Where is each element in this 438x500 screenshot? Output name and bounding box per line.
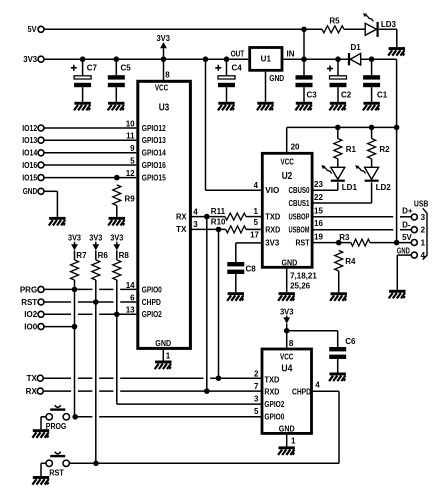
label R1 xyxy=(346,145,357,154)
wire U2 GND lead xyxy=(286,269,288,293)
svg-text:R10: R10 xyxy=(211,217,226,226)
ground C8 xyxy=(227,292,244,301)
svg-text:U3: U3 xyxy=(159,103,170,114)
junction 5V VCC xyxy=(394,125,400,131)
svg-text:GND: GND xyxy=(279,425,295,434)
label USBOP xyxy=(289,213,310,222)
capacitor C3 xyxy=(296,75,313,87)
module U4 xyxy=(262,349,312,433)
wire R5 to LD3 xyxy=(344,28,365,30)
USB bracket xyxy=(423,208,427,259)
svg-text:CHPD: CHPD xyxy=(292,387,311,396)
svg-text:3: 3 xyxy=(421,213,426,222)
USB pin 1 circle xyxy=(411,240,417,246)
wire C6 branch xyxy=(287,331,338,347)
svg-text:11: 11 xyxy=(126,132,135,141)
svg-text:IO16: IO16 xyxy=(22,161,37,170)
svg-text:IO15: IO15 xyxy=(22,174,37,183)
wire U3 GND lead xyxy=(162,350,164,361)
svg-text:RST: RST xyxy=(21,298,37,307)
svg-text:10: 10 xyxy=(126,119,135,128)
wire U2 VCC pin 20 xyxy=(287,127,397,152)
label U4 RXD xyxy=(264,387,279,396)
wire 5V vertical xyxy=(396,59,398,242)
label R5 xyxy=(329,16,340,25)
3V3 power arrow U4 xyxy=(283,316,290,324)
3V3 power arrow R6 xyxy=(92,242,99,251)
capacitor C1 xyxy=(363,75,380,87)
U4 pin number 3 xyxy=(254,394,259,403)
wire IO15 to U3 xyxy=(44,177,136,179)
wire PRG to GPIO0 xyxy=(44,287,136,293)
wire U2 RST to R3 xyxy=(314,242,351,244)
terminal label RX xyxy=(26,387,38,396)
wire R8 top lead xyxy=(116,250,118,260)
svg-text:20: 20 xyxy=(291,142,300,151)
wire U2 VIO to 3V3 rail xyxy=(206,59,261,190)
junction C4 xyxy=(224,56,230,62)
svg-text:GPIO2: GPIO2 xyxy=(142,310,162,319)
terminal RX xyxy=(37,388,43,394)
terminal IO13 xyxy=(38,137,44,143)
label GPIO16 xyxy=(142,161,166,170)
junction 5V rail to U1 IN xyxy=(301,27,307,33)
label U3 VCC xyxy=(155,83,168,92)
wire R7 column down to PROG xyxy=(74,289,76,416)
label R11 xyxy=(211,207,226,216)
terminal label IO16 xyxy=(22,161,37,170)
svg-text:8: 8 xyxy=(289,339,294,348)
terminal label IO14 xyxy=(22,149,37,158)
terminal label IO15 xyxy=(22,174,37,183)
terminal label IO2 xyxy=(24,310,37,319)
terminal IO0 xyxy=(38,324,44,330)
label U3 xyxy=(159,103,170,114)
svg-text:1: 1 xyxy=(291,436,296,445)
wire 5V to IN vertical xyxy=(303,29,305,75)
svg-text:R3: R3 xyxy=(339,233,350,242)
ground LD3 xyxy=(388,47,405,56)
svg-text:VCC: VCC xyxy=(155,83,168,92)
svg-text:VCC: VCC xyxy=(281,157,294,166)
ground C4 xyxy=(218,102,235,111)
junction C1 xyxy=(369,56,375,62)
wire CBUS0 to LD1 xyxy=(314,182,338,190)
svg-text:5: 5 xyxy=(130,156,135,165)
svg-text:3V3: 3V3 xyxy=(265,239,280,248)
wire R7 top lead xyxy=(74,250,76,260)
terminal TX xyxy=(37,375,43,381)
label U4 CHPD xyxy=(292,387,311,396)
svg-text:RST: RST xyxy=(296,239,310,248)
capacitor C5 xyxy=(108,75,125,87)
terminal label IO13 xyxy=(22,136,37,145)
wire R6 top lead xyxy=(95,250,97,260)
wire C7 top lead xyxy=(82,59,84,75)
svg-text:3: 3 xyxy=(254,394,259,403)
terminal IO15 xyxy=(38,175,44,181)
U2 pin number 22 xyxy=(314,193,323,202)
svg-text:RXD: RXD xyxy=(264,387,279,396)
svg-text:RST: RST xyxy=(49,469,64,478)
label GPIO13 xyxy=(142,136,166,145)
wire U1 IN xyxy=(283,58,348,60)
svg-text:1: 1 xyxy=(254,207,259,216)
label C7 xyxy=(87,64,98,73)
svg-text:GND: GND xyxy=(282,258,298,267)
svg-text:CBUS0: CBUS0 xyxy=(289,186,310,195)
pin number 6 xyxy=(130,293,135,302)
ground R4 xyxy=(330,292,347,301)
svg-text:7,18,21: 7,18,21 xyxy=(290,271,317,280)
junction U2 VIO branch xyxy=(203,56,209,62)
U4 pin number 7 xyxy=(254,382,259,391)
svg-text:D+: D+ xyxy=(402,206,413,215)
label VIO xyxy=(265,186,279,195)
svg-text:GPIO12: GPIO12 xyxy=(142,124,166,133)
pin number 4 xyxy=(193,207,198,216)
svg-text:3V3: 3V3 xyxy=(68,234,82,243)
resistor R3 xyxy=(351,239,370,246)
pin number 12 xyxy=(126,169,135,178)
label RST xyxy=(49,469,64,478)
terminal PRG xyxy=(38,286,44,292)
label GPIO14 xyxy=(142,149,166,158)
wire U3 TX to R10 xyxy=(190,227,225,233)
svg-text:GND: GND xyxy=(23,187,38,196)
wire RST button to CHPD run xyxy=(69,462,339,464)
ground U2 xyxy=(278,292,295,301)
label U2 3V3 xyxy=(265,239,280,248)
ground U4 xyxy=(278,446,295,455)
label U4 xyxy=(281,363,292,374)
svg-text:C1: C1 xyxy=(377,90,388,99)
resistor R4 xyxy=(335,250,343,271)
svg-text:IO13: IO13 xyxy=(22,136,37,145)
svg-text:14: 14 xyxy=(126,281,135,290)
ground C5 xyxy=(108,102,125,111)
ground C7 xyxy=(74,102,91,111)
wire LD3 ground lead xyxy=(396,29,398,47)
pin number 3 xyxy=(193,220,198,229)
U4 pin number 1 xyxy=(291,436,296,445)
svg-text:R6: R6 xyxy=(98,251,109,260)
junction R3 5V xyxy=(394,240,400,246)
label C8 xyxy=(246,265,257,274)
diode D1 xyxy=(349,53,361,65)
label IN xyxy=(287,49,295,58)
svg-text:RXD: RXD xyxy=(265,225,280,234)
label C2 xyxy=(341,90,352,99)
svg-text:6: 6 xyxy=(130,293,135,302)
pin 8 label xyxy=(165,71,170,80)
wire C6 bottom lead xyxy=(337,359,339,373)
capacitor C2 xyxy=(327,66,347,88)
svg-text:R2: R2 xyxy=(379,145,390,154)
svg-text:5V: 5V xyxy=(28,25,38,34)
svg-text:GPIO16: GPIO16 xyxy=(142,161,166,170)
label CBUS0 xyxy=(289,186,310,195)
svg-text:13: 13 xyxy=(126,306,135,315)
junction C3 / 5V xyxy=(301,56,307,62)
U2 pins 7,18,21 xyxy=(290,271,317,280)
capacitor C8 xyxy=(227,262,244,274)
label C6 xyxy=(345,337,356,346)
U2 pin number 4 xyxy=(254,181,259,190)
USB pin number 2 xyxy=(421,226,426,235)
wire R2 to LD2 xyxy=(371,159,373,168)
label LD3 xyxy=(381,20,397,29)
wire U3 RX to R11 xyxy=(190,214,225,220)
svg-text:R4: R4 xyxy=(345,257,356,266)
svg-text:C5: C5 xyxy=(121,64,132,73)
label U2 RST xyxy=(296,239,310,248)
svg-text:IO12: IO12 xyxy=(22,124,37,133)
label U4 TXD xyxy=(264,375,279,384)
label R6 xyxy=(98,251,109,260)
USB pin 3 circle xyxy=(411,214,417,220)
svg-text:USBOM: USBOM xyxy=(289,225,310,234)
junction R1 VCC xyxy=(335,125,341,131)
label U3 GND xyxy=(155,339,171,348)
svg-text:19: 19 xyxy=(314,233,323,242)
wire U1 GND lead xyxy=(265,72,267,102)
junction C6 branch xyxy=(284,328,290,334)
junction R9 on IO15 xyxy=(114,175,120,181)
label USBOM xyxy=(289,225,310,234)
label GPIO0 xyxy=(142,285,162,294)
junction C5 xyxy=(114,56,120,62)
terminal label PRG xyxy=(20,285,37,294)
3V3 power arrow U3 xyxy=(160,42,167,48)
label U2 xyxy=(282,171,293,182)
USB pin number 4 xyxy=(421,251,426,260)
wire U4 VCC pin 8 xyxy=(286,324,288,348)
resistor R1 xyxy=(334,139,342,159)
U2 pin number 16 xyxy=(314,219,323,228)
wire R8 bottom lead xyxy=(116,280,118,314)
label U3 RX xyxy=(176,212,187,221)
3V3 terminal label xyxy=(23,55,38,64)
USB pin number 3 xyxy=(421,213,426,222)
svg-text:C4: C4 xyxy=(232,64,243,73)
wire 3V3 rail xyxy=(44,58,248,60)
U2 pin number 20 xyxy=(291,142,300,151)
svg-text:TX: TX xyxy=(27,374,38,383)
label R2 xyxy=(379,145,390,154)
label U2 RXD xyxy=(265,225,280,234)
wire C1 top lead xyxy=(371,59,373,75)
svg-text:3V3: 3V3 xyxy=(89,234,103,243)
label C3 xyxy=(307,90,318,99)
resistor R6 xyxy=(92,260,100,280)
svg-text:5: 5 xyxy=(254,218,259,227)
svg-text:GPIO2: GPIO2 xyxy=(264,400,284,409)
capacitor C6 xyxy=(329,347,346,359)
svg-text:LD1: LD1 xyxy=(342,183,358,192)
svg-text:VCC: VCC xyxy=(280,352,293,361)
wire C5 bottom lead xyxy=(115,87,117,102)
regulator U1 xyxy=(250,48,282,71)
ground GND terminal xyxy=(49,217,66,226)
svg-text:R11: R11 xyxy=(211,207,226,216)
wire R2 top lead xyxy=(371,127,373,138)
svg-text:R7: R7 xyxy=(76,251,87,260)
svg-text:GND: GND xyxy=(397,246,410,255)
svg-text:U1: U1 xyxy=(261,55,272,64)
svg-text:RX: RX xyxy=(176,212,187,221)
ground U1 xyxy=(257,102,274,111)
svg-text:17: 17 xyxy=(250,230,259,239)
label U4 GND xyxy=(279,425,295,434)
wire IO12 to U3 xyxy=(44,127,136,129)
5V terminal xyxy=(38,26,44,32)
ground C3 xyxy=(295,102,312,111)
U2 pins 25,26 xyxy=(290,282,311,291)
svg-text:7: 7 xyxy=(254,382,259,391)
label LD1 xyxy=(342,183,358,192)
USB-serial U2 xyxy=(262,153,312,267)
svg-text:4: 4 xyxy=(315,381,320,390)
ground U3 xyxy=(155,361,172,370)
label R3 xyxy=(339,233,350,242)
pin number 13 xyxy=(126,306,135,315)
svg-text:GND: GND xyxy=(269,74,284,83)
junction U3 VCC xyxy=(161,56,167,62)
wire U3 VCC pin 8 xyxy=(163,48,165,80)
terminal IO14 xyxy=(38,150,44,156)
resistor R7 xyxy=(71,260,79,280)
wire TX vertical xyxy=(218,229,220,378)
U2 pin number 15 xyxy=(314,206,323,215)
svg-text:3V3: 3V3 xyxy=(23,55,38,64)
svg-text:LD3: LD3 xyxy=(381,20,397,29)
wire TX terminal to U4 TXD xyxy=(44,375,261,381)
wire C2 bottom lead xyxy=(337,87,339,102)
svg-text:15: 15 xyxy=(314,206,323,215)
label U4 VCC xyxy=(280,352,293,361)
wire PROG to U4 GPIO0 xyxy=(75,416,261,418)
label R4 xyxy=(345,257,356,266)
wire C3 bottom lead xyxy=(303,87,305,102)
label U1 xyxy=(261,55,272,64)
label U2 VCC xyxy=(281,157,294,166)
3V3 net label at R6 xyxy=(89,234,103,243)
push-button RST xyxy=(46,452,69,467)
junction RST / CHPD xyxy=(93,461,99,467)
ground USB xyxy=(389,290,406,299)
wire CBUS1 to LD2 xyxy=(314,182,372,203)
U2 pin number 19 xyxy=(314,233,323,242)
label R8 xyxy=(119,251,130,260)
ground PROG xyxy=(32,429,49,438)
terminal IO2 xyxy=(38,311,44,317)
label USB xyxy=(414,199,429,208)
pin number 5 xyxy=(130,156,135,165)
wire U2 3V3 pin to C8 xyxy=(236,243,261,262)
wire GPIO2 to U4 xyxy=(117,403,261,405)
capacitor C7 xyxy=(71,65,91,87)
svg-text:IO2: IO2 xyxy=(24,310,37,319)
ground C6 xyxy=(329,373,346,382)
label D- xyxy=(402,221,411,230)
U2 pin number 23 xyxy=(314,180,323,189)
label C1 xyxy=(377,90,388,99)
svg-text:TX: TX xyxy=(176,225,187,234)
label 5V pin xyxy=(402,233,412,242)
ground C1 xyxy=(363,102,380,111)
svg-text:U2: U2 xyxy=(282,171,293,182)
svg-text:C3: C3 xyxy=(307,90,318,99)
U4 pin number 5 xyxy=(254,407,259,416)
svg-text:OUT: OUT xyxy=(231,49,245,58)
label LD2 xyxy=(376,183,392,192)
5V terminal label xyxy=(28,25,38,34)
svg-text:IN: IN xyxy=(287,49,295,58)
junction PROG / GPIO0 xyxy=(72,414,78,420)
wire C4 top lead xyxy=(226,59,228,75)
wire R11 to U2 TXD xyxy=(246,216,261,218)
ground C2 xyxy=(329,102,346,111)
svg-text:4: 4 xyxy=(254,181,259,190)
wire R8 column down xyxy=(116,314,118,404)
wire R10 to U2 RXD xyxy=(246,228,261,230)
svg-text:GPIO13: GPIO13 xyxy=(142,136,166,145)
wire C5 top lead xyxy=(115,59,117,75)
label U1 GND xyxy=(269,74,284,83)
svg-text:1: 1 xyxy=(166,351,171,360)
svg-text:3V3: 3V3 xyxy=(110,234,124,243)
wire RX vertical xyxy=(206,217,208,392)
wire R6 bottom lead xyxy=(95,280,97,302)
wire D1 cathode side xyxy=(361,58,397,60)
U4 pin number 2 xyxy=(254,369,259,378)
USB pin number 1 xyxy=(421,238,426,247)
svg-text:R1: R1 xyxy=(346,145,357,154)
3V3 terminal xyxy=(38,56,44,62)
svg-text:TXD: TXD xyxy=(265,213,280,222)
svg-text:D-: D- xyxy=(402,221,411,230)
label GND pin xyxy=(397,246,410,255)
terminal IO16 xyxy=(38,162,44,168)
wire USBOM to USB D- xyxy=(314,229,412,231)
svg-text:USBOP: USBOP xyxy=(289,213,310,222)
wire U4 GND lead xyxy=(286,435,288,447)
label U2 GND xyxy=(282,258,298,267)
wire R3 to 5V xyxy=(370,242,412,244)
label D+ xyxy=(402,206,413,215)
pin number 11 xyxy=(126,132,135,141)
USB pin 2 circle xyxy=(411,227,417,233)
svg-text:USB: USB xyxy=(414,199,429,208)
wire R7 bottom lead xyxy=(74,280,76,289)
svg-text:23: 23 xyxy=(314,180,323,189)
wire USBOP to USB D+ xyxy=(314,216,412,218)
terminal label RST xyxy=(21,298,37,307)
wire IO0 to R7 column xyxy=(44,324,77,330)
svg-text:PRG: PRG xyxy=(20,285,37,294)
LED LD2 xyxy=(355,165,379,180)
pin number 14 xyxy=(126,281,135,290)
svg-text:2: 2 xyxy=(254,369,259,378)
terminal label GND xyxy=(23,187,38,196)
svg-text:VIO: VIO xyxy=(265,186,279,195)
USB pin 4 circle xyxy=(411,252,417,258)
label CBUS1 xyxy=(289,199,310,208)
terminal label IO0 xyxy=(24,323,37,332)
U4 pin number 8 xyxy=(289,339,294,348)
terminal GND xyxy=(38,188,44,194)
